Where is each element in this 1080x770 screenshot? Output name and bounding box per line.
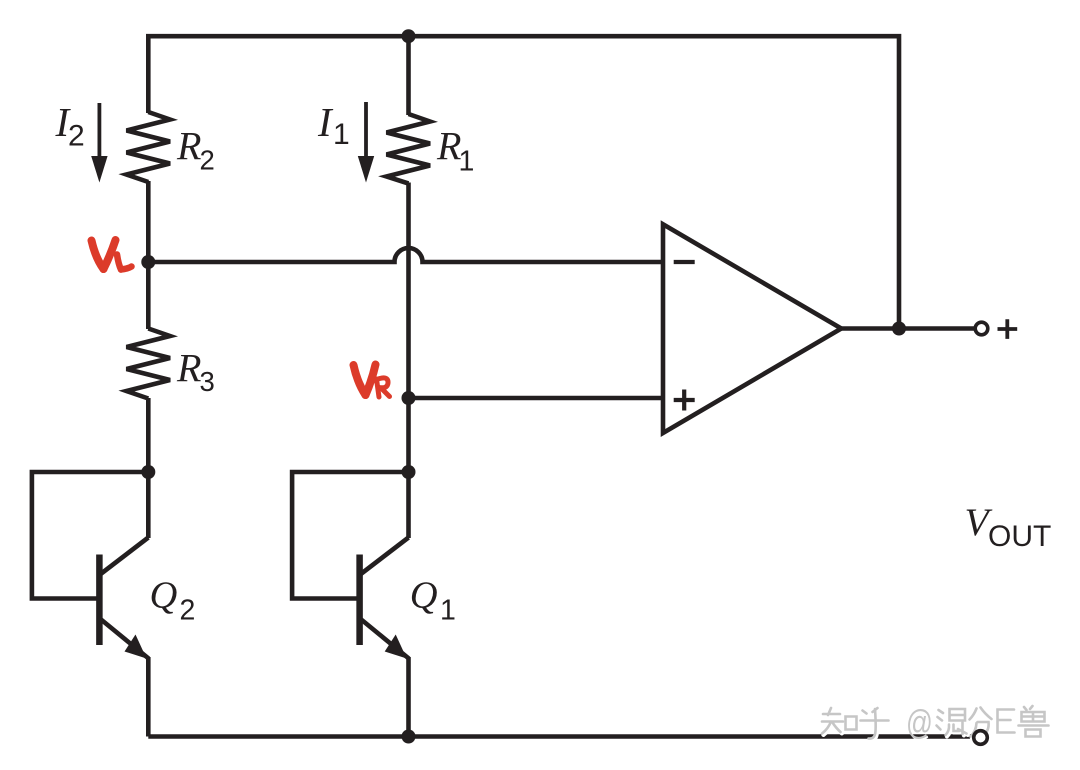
svg-text:Q: Q <box>410 575 438 617</box>
svg-text:OUT: OUT <box>988 520 1051 553</box>
svg-text:@: @ <box>906 704 933 742</box>
svg-text:I: I <box>317 99 334 145</box>
svg-text:2: 2 <box>200 145 215 176</box>
svg-text:Q: Q <box>150 575 178 617</box>
svg-text:1: 1 <box>440 595 456 627</box>
svg-text:2: 2 <box>68 120 85 153</box>
svg-text:2: 2 <box>180 595 196 627</box>
svg-text:1: 1 <box>459 146 475 178</box>
svg-text:1: 1 <box>333 118 350 151</box>
svg-text:3: 3 <box>200 366 215 397</box>
svg-text:R: R <box>176 124 201 169</box>
svg-text:R: R <box>176 346 201 391</box>
